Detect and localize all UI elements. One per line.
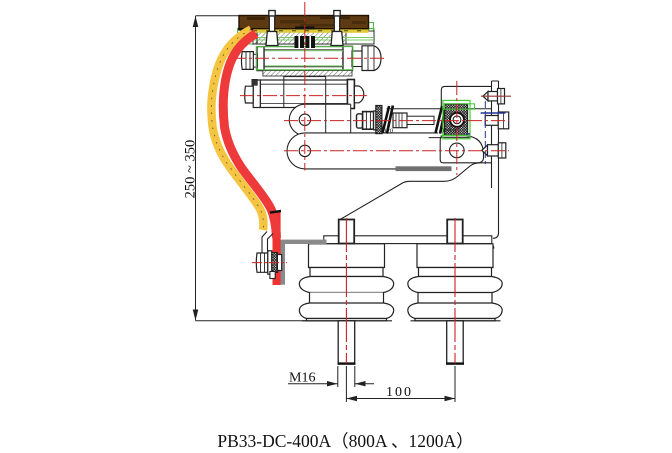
gray pad bar [396,166,452,171]
frame shelf (base plate) [324,236,492,244]
spring cage top line [387,108,492,110]
green bar end cap [369,23,374,40]
gray L bracket: vertical strip [280,244,285,285]
wall mount plate right [488,81,499,249]
spring nut [363,112,374,130]
cyl2 dark clamp left [252,79,258,85]
red center line cylinder2 [240,95,367,97]
green outline cylinder1 [256,47,353,70]
svg-text:0=0.05: 0=0.05 [441,128,459,135]
red center line wall bolt1 [481,95,511,97]
center clamp bolt [295,27,316,49]
hatch strip between cylinders [263,71,352,77]
spring seat left (hatched) [376,106,382,134]
M16 dimension [288,366,374,387]
cable terminal lug outline [262,232,273,260]
top bolt 1 through bar [266,11,278,46]
navy line vertical dashed [484,101,486,164]
terminal bolt lower left [256,251,281,279]
wall bolt 3 (bottom, cone tip) [482,143,506,158]
yellow strip under carbon bar [240,29,369,33]
navy line horizontal [481,112,506,114]
pivot block (hatched with bore) [445,104,468,136]
red center line spring axis [284,120,509,122]
cyl2 right hex head [354,86,363,103]
arm step lines [325,104,327,133]
long rod [407,116,434,124]
cable end tick [270,211,281,213]
dimension 250~350: extension line bottom [196,320,345,322]
red center line terminal [252,262,287,264]
insulator 1 bottom stud M16 [338,321,356,364]
dimension arrow up [193,16,199,27]
cyl1 right neck [352,51,362,67]
bracket hole [450,143,465,158]
red vertical pivot [456,81,458,175]
dimension 250~350 left: extension line top [196,15,241,17]
cylinder 1 (upper tube) [241,46,381,71]
100 dimension [346,366,455,402]
cyl1 right hex head [362,46,381,71]
insulator 2 top stud [447,220,463,244]
gray L bracket: horizontal arm [280,240,327,244]
red center line lower hole axis [284,150,509,152]
red center line cylinder1 [232,57,385,59]
dimension 250~350: vertical dimension line [195,16,197,321]
cyl1 left hex bolt [241,52,253,70]
svg-text:250 ~ 350: 250 ~ 350 [182,140,198,199]
svg-text:100: 100 [386,385,413,400]
threaded rod [393,113,407,128]
red center line vertical main (x=304.8) [304,2,306,171]
cyl2 left hex bolt head [245,86,254,103]
hole 2 [299,145,310,156]
spring assembly: rod end [357,114,363,128]
navy short segment [467,133,470,135]
yellow cable [211,30,263,231]
svg-text:PB33-DC-400A（800A 、1200A）: PB33-DC-400A（800A 、1200A） [217,431,473,451]
svg-text:M16: M16 [289,371,315,386]
insulator 1 top stud [339,220,355,244]
red cable [223,34,276,239]
spring washer [374,111,377,130]
cylinder 2 (lower tube) [245,77,364,109]
insulator 2 bottom stud M16 [446,321,464,364]
spring coil strokes right [436,106,443,133]
arm upper tab with hole [289,104,350,135]
spring coil strokes left [383,106,390,133]
wall bolt 1 (top, cone tip) [483,89,505,104]
collector plate hatched [253,31,374,44]
arm lower plate with hole [287,133,440,169]
insulator 2 [408,244,502,321]
carbon contact bar (brown) [239,16,369,29]
svg-text:0=0: 0=0 [383,128,393,135]
cyl2 right cap [347,80,354,109]
top bolt 2 through bar [331,11,343,46]
hole 1 [299,114,310,125]
red vertical insulator 2 [454,218,456,364]
green box top small [444,104,474,109]
pivot bracket right with hole [440,136,483,163]
red vertical insulator 1 [345,218,347,364]
spring seat right (hatched) [450,106,456,134]
insulator 1 [299,244,393,321]
wall bolt 2 (middle) [485,112,509,129]
frame main plate outline [339,163,492,236]
red cable strip (lug) [273,213,281,286]
upper bracket gusset [441,86,491,108]
green outline collector plate [238,29,375,45]
dimension arrow down [193,310,199,321]
green underline bracket [441,135,469,137]
green pivot box [443,100,470,138]
black tab left under bar [238,28,253,31]
spring cage bottom line [429,137,470,139]
